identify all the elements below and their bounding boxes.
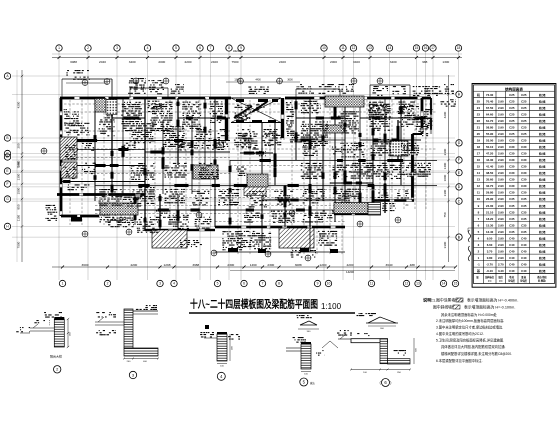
svg-text:做法: 做法	[310, 381, 315, 385]
svg-text:3: 3	[116, 46, 118, 50]
svg-text:7: 7	[262, 282, 264, 286]
svg-text:750: 750	[443, 212, 447, 217]
svg-text:C40: C40	[509, 236, 515, 240]
svg-text:2.90: 2.90	[498, 132, 504, 136]
svg-text:G: G	[458, 141, 461, 145]
svg-text:1:100: 1:100	[321, 302, 342, 311]
svg-text:5.卫生间,厨房及阳台板面标高降低,详见建施图.: 5.卫生间,厨房及阳台板面标高降低,详见建施图.	[436, 338, 504, 343]
svg-text:6.60: 6.60	[487, 243, 493, 247]
svg-text:29.80: 29.80	[486, 191, 494, 195]
svg-text:0.80: 0.80	[487, 256, 493, 260]
svg-text:-2.70: -2.70	[486, 262, 493, 266]
svg-text:C35: C35	[521, 197, 527, 201]
svg-text:剪力墙: 剪力墙	[538, 223, 546, 227]
svg-text:3.70: 3.70	[487, 249, 493, 253]
svg-text:18: 18	[477, 145, 481, 149]
svg-text:7: 7	[210, 46, 212, 50]
svg-text:13: 13	[368, 46, 372, 50]
svg-text:剪力墙: 剪力墙	[538, 132, 546, 136]
svg-text:C30: C30	[521, 145, 527, 149]
svg-text:3400: 3400	[390, 60, 397, 64]
svg-text:C25: C25	[521, 100, 527, 104]
svg-text:2.90: 2.90	[498, 249, 504, 253]
svg-text:3.图中未注明梁定位尺寸者,梁边贴柱边或墙边.: 3.图中未注明梁定位尺寸者,梁边贴柱边或墙边.	[436, 325, 503, 330]
svg-text:剪力墙: 剪力墙	[538, 191, 546, 195]
svg-text:2.90: 2.90	[498, 236, 504, 240]
svg-text:3640: 3640	[318, 233, 322, 240]
svg-text:12.40: 12.40	[486, 230, 494, 234]
svg-text:具体做法详见大样图,板内配筋双层双向拉通.: 具体做法详见大样图,板内配筋双层双向拉通.	[441, 344, 506, 349]
svg-text:32.70: 32.70	[486, 184, 494, 188]
svg-text:1.图中涂黑墙体: 1.图中涂黑墙体	[433, 298, 459, 303]
svg-text:58.80: 58.80	[486, 126, 494, 130]
svg-text:13: 13	[477, 178, 481, 182]
svg-text:14: 14	[388, 46, 392, 50]
svg-text:15: 15	[415, 46, 419, 50]
svg-text:1: 1	[62, 282, 64, 286]
svg-text:C35: C35	[521, 204, 527, 208]
svg-text:14200: 14200	[346, 270, 354, 274]
svg-text:C25: C25	[521, 139, 527, 143]
svg-text:基: 基	[476, 268, 480, 273]
svg-text:2.90: 2.90	[498, 204, 504, 208]
svg-text:21.10: 21.10	[486, 210, 494, 214]
svg-text:5: 5	[217, 282, 219, 286]
svg-text:4200: 4200	[130, 263, 137, 267]
svg-text:2400: 2400	[211, 60, 218, 64]
svg-text:C30: C30	[521, 178, 527, 182]
svg-text:图中斜线墙体: 图中斜线墙体	[433, 305, 456, 310]
svg-text:C30: C30	[509, 191, 515, 195]
svg-text:剪力墙: 剪力墙	[538, 171, 546, 175]
svg-text:4: 4	[173, 282, 175, 286]
svg-text:C30: C30	[509, 165, 515, 169]
svg-text:C25: C25	[521, 119, 527, 123]
svg-text:C30: C30	[509, 178, 515, 182]
svg-text:1200: 1200	[320, 263, 327, 267]
svg-text:6.本层梁配筋详见平面图中标注.: 6.本层梁配筋详见平面图中标注.	[436, 358, 483, 363]
svg-text:14: 14	[477, 171, 481, 175]
svg-text:7500: 7500	[232, 60, 239, 64]
svg-text:3300: 3300	[443, 241, 447, 248]
svg-text:剪力墙: 剪力墙	[538, 262, 546, 266]
svg-text:47.20: 47.20	[486, 152, 494, 156]
svg-text:13: 13	[416, 282, 420, 286]
svg-text:C25: C25	[509, 93, 515, 97]
svg-text:C40: C40	[521, 243, 527, 247]
svg-text:C30: C30	[509, 145, 515, 149]
svg-text:2000: 2000	[330, 60, 337, 64]
svg-text:2.90: 2.90	[498, 256, 504, 260]
svg-text:9.50: 9.50	[487, 236, 493, 240]
svg-text:C35: C35	[521, 210, 527, 214]
svg-text:剪力墙: 剪力墙	[538, 126, 546, 130]
svg-text:1460: 1460	[250, 263, 257, 267]
svg-text:C40: C40	[509, 256, 515, 260]
svg-text:16: 16	[424, 46, 428, 50]
svg-text:14: 14	[442, 282, 446, 286]
svg-text:剪力墙: 剪力墙	[538, 158, 546, 162]
svg-text:4400: 4400	[255, 79, 261, 82]
svg-text:2300: 2300	[227, 263, 234, 267]
svg-text:C30: C30	[509, 171, 515, 175]
svg-text:C40: C40	[521, 269, 527, 273]
svg-text:67.50: 67.50	[486, 106, 494, 110]
svg-text:988: 988	[422, 60, 427, 64]
svg-text:19: 19	[477, 139, 481, 143]
svg-text:C30: C30	[521, 171, 527, 175]
svg-text:剪力墙: 剪力墙	[538, 184, 546, 188]
svg-text:C25: C25	[509, 139, 515, 143]
svg-text:C25: C25	[521, 93, 527, 97]
svg-text:25: 25	[477, 100, 481, 104]
svg-text:3640: 3640	[386, 263, 393, 267]
svg-text:4200: 4200	[347, 263, 354, 267]
svg-text:C35: C35	[509, 197, 515, 201]
svg-text:F: F	[458, 158, 460, 162]
svg-text:剪力墙: 剪力墙	[538, 145, 546, 149]
svg-text:C25: C25	[509, 126, 515, 130]
svg-text:2.90: 2.90	[498, 171, 504, 175]
svg-text:机: 机	[477, 92, 480, 97]
svg-text:2400: 2400	[279, 60, 286, 64]
svg-text:C25: C25	[509, 119, 515, 123]
svg-text:26.90: 26.90	[486, 197, 494, 201]
svg-text:剪力墙: 剪力墙	[538, 249, 546, 253]
svg-text:剪力墙: 剪力墙	[538, 152, 546, 156]
svg-text:3.40: 3.40	[498, 269, 504, 273]
svg-text:1000: 1000	[443, 174, 447, 181]
svg-text:C35: C35	[509, 223, 515, 227]
svg-text:C25: C25	[509, 106, 515, 110]
svg-text:C25: C25	[509, 132, 515, 136]
svg-text:）: ）	[390, 381, 394, 386]
svg-text:4: 4	[147, 46, 149, 50]
svg-text:11: 11	[370, 282, 374, 286]
svg-text:C30: C30	[509, 158, 515, 162]
svg-text:21: 21	[477, 126, 481, 130]
svg-text:剪力墙: 剪力墙	[538, 197, 546, 201]
svg-text:C30: C30	[521, 165, 527, 169]
svg-text:8: 8	[278, 282, 280, 286]
svg-text:说明:: 说明:	[423, 297, 433, 304]
svg-text:C40: C40	[509, 243, 515, 247]
svg-text:-1: -1	[477, 262, 480, 266]
svg-text:C40: C40	[509, 262, 515, 266]
svg-text:3600: 3600	[287, 79, 293, 82]
svg-text:2.90: 2.90	[498, 230, 504, 234]
svg-text:C25: C25	[509, 113, 515, 117]
svg-text:2200: 2200	[185, 60, 192, 64]
svg-text:C35: C35	[521, 223, 527, 227]
svg-text:十八~二十四层模板图及梁配筋平面图: 十八~二十四层模板图及梁配筋平面图	[190, 298, 318, 311]
svg-text:20: 20	[477, 132, 481, 136]
svg-text:41.40: 41.40	[486, 165, 494, 169]
svg-text:其余未注明墙顶面标高为 H=0.000m处: 其余未注明墙顶面标高为 H=0.000m处	[441, 312, 497, 317]
svg-text:2C: 2C	[405, 204, 408, 207]
svg-text:6: 6	[243, 282, 245, 286]
svg-text:2.70: 2.70	[498, 262, 504, 266]
svg-text:2.90: 2.90	[498, 178, 504, 182]
svg-text:12: 12	[352, 46, 356, 50]
svg-text:2.90: 2.90	[498, 210, 504, 214]
svg-text:1300: 1300	[443, 189, 447, 196]
svg-text:剪力墙: 剪力墙	[538, 139, 546, 143]
svg-text:2.90: 2.90	[498, 223, 504, 227]
svg-text:2040: 2040	[99, 60, 106, 64]
svg-text:C35: C35	[521, 230, 527, 234]
svg-text:3600: 3600	[82, 263, 89, 267]
svg-text:C30: C30	[509, 184, 515, 188]
svg-text:C35: C35	[509, 204, 515, 208]
svg-text:2.90: 2.90	[498, 217, 504, 221]
svg-text:5: 5	[175, 46, 177, 50]
svg-text:(m): (m)	[488, 280, 492, 282]
svg-text:488: 488	[410, 263, 415, 267]
svg-text:剪力墙: 剪力墙	[538, 113, 546, 117]
svg-text:1: 1	[58, 46, 60, 50]
svg-text:C35: C35	[509, 230, 515, 234]
svg-text:22: 22	[477, 119, 481, 123]
svg-text:8: 8	[228, 46, 230, 50]
svg-text:61.70: 61.70	[486, 119, 494, 123]
svg-text:C30: C30	[521, 184, 527, 188]
svg-text:C25: C25	[509, 100, 515, 104]
svg-text:C40: C40	[521, 262, 527, 266]
svg-text:18.20: 18.20	[486, 217, 494, 221]
svg-text:2.90: 2.90	[498, 106, 504, 110]
svg-text:结构层高表: 结构层高表	[504, 86, 523, 91]
svg-text:6: 6	[199, 46, 201, 50]
svg-text:C25: C25	[521, 106, 527, 110]
svg-text:34200: 34200	[233, 49, 242, 53]
svg-text:2.90: 2.90	[498, 165, 504, 169]
svg-text:15: 15	[454, 282, 458, 286]
svg-text:剪力墙: 剪力墙	[538, 106, 546, 110]
svg-text:18: 18	[457, 46, 461, 50]
svg-text:2.90: 2.90	[498, 100, 504, 104]
svg-text:24: 24	[477, 106, 481, 110]
svg-text:2.90: 2.90	[498, 197, 504, 201]
svg-text:G: G	[6, 197, 9, 201]
svg-text:4.图中未注明的梁吊筋均为2C12.: 4.图中未注明的梁吊筋均为2C12.	[436, 331, 484, 336]
svg-text:表示墙顶面标高为 H=-0.400m.: 表示墙顶面标高为 H=-0.400m.	[467, 298, 518, 303]
svg-text:剪力墙: 剪力墙	[538, 100, 546, 104]
svg-text:35.60: 35.60	[486, 178, 494, 182]
svg-text:3: 3	[159, 282, 161, 286]
svg-text:70.40: 70.40	[486, 100, 494, 104]
svg-text:1300: 1300	[442, 60, 449, 64]
svg-text:C40: C40	[521, 236, 527, 240]
svg-text:2000: 2000	[158, 60, 165, 64]
svg-text:C40: C40	[509, 249, 515, 253]
svg-text:1400: 1400	[443, 162, 447, 169]
svg-text:12: 12	[477, 184, 481, 188]
svg-text:1298: 1298	[164, 263, 171, 267]
svg-text:2: 2	[87, 46, 89, 50]
svg-text:2.90: 2.90	[498, 158, 504, 162]
svg-text:C35: C35	[509, 210, 515, 214]
svg-text:44.30: 44.30	[486, 158, 494, 162]
svg-text:4200: 4200	[443, 111, 447, 118]
svg-text:C30: C30	[509, 152, 515, 156]
svg-text:C30: C30	[521, 158, 527, 162]
svg-text:剪力墙: 剪力墙	[538, 93, 546, 97]
svg-text:-6.10: -6.10	[486, 269, 493, 273]
svg-text:2.90: 2.90	[498, 113, 504, 117]
svg-text:C40: C40	[521, 256, 527, 260]
svg-text:3400: 3400	[353, 60, 360, 64]
svg-text:剪力墙: 剪力墙	[538, 236, 546, 240]
svg-text:15: 15	[477, 165, 481, 169]
svg-text:17: 17	[477, 152, 481, 156]
svg-text:10: 10	[327, 282, 331, 286]
svg-text:12: 12	[405, 282, 409, 286]
svg-text:剪力墙: 剪力墙	[538, 210, 546, 214]
svg-text:C35: C35	[521, 217, 527, 221]
svg-text:楼梯间配筋详见楼梯详图,未注明分布筋C8@200.: 楼梯间配筋详见楼梯详图,未注明分布筋C8@200.	[441, 351, 512, 356]
svg-text:(m): (m)	[499, 280, 503, 282]
svg-text:64.60: 64.60	[486, 113, 494, 117]
svg-text:2.90: 2.90	[498, 145, 504, 149]
svg-text:C40: C40	[509, 269, 515, 273]
svg-text:3400: 3400	[129, 60, 136, 64]
svg-text:C30: C30	[521, 191, 527, 195]
svg-text:2.90: 2.90	[498, 119, 504, 123]
svg-text:10: 10	[322, 46, 326, 50]
svg-text:50.10: 50.10	[486, 145, 494, 149]
svg-text:剪力墙: 剪力墙	[538, 178, 546, 182]
svg-text:C25: C25	[521, 113, 527, 117]
svg-text:剪力墙: 剪力墙	[538, 269, 546, 273]
svg-text:2.90: 2.90	[498, 184, 504, 188]
svg-text:15.30: 15.30	[486, 223, 494, 227]
svg-text:C35: C35	[509, 217, 515, 221]
svg-text:3088: 3088	[70, 60, 77, 64]
svg-text:C25: C25	[521, 126, 527, 130]
svg-text:C40: C40	[521, 249, 527, 253]
svg-text:阳台大样: 阳台大样	[50, 354, 62, 359]
svg-text:73.30: 73.30	[486, 93, 494, 97]
svg-text:53.00: 53.00	[486, 139, 494, 143]
svg-text:38.50: 38.50	[486, 171, 494, 175]
svg-text:17: 17	[431, 46, 435, 50]
svg-text:F: F	[6, 182, 8, 186]
svg-text:表示墙顶面标高为 H=-0.100m.: 表示墙顶面标高为 H=-0.100m.	[464, 305, 515, 310]
svg-text:55.90: 55.90	[486, 132, 494, 136]
svg-text:剪力墙: 剪力墙	[538, 243, 546, 247]
svg-text:剪力墙: 剪力墙	[538, 256, 546, 260]
svg-text:11: 11	[341, 46, 345, 50]
svg-text:23: 23	[477, 113, 481, 117]
svg-text:24.00: 24.00	[486, 204, 494, 208]
svg-text:10: 10	[477, 197, 481, 201]
svg-text:2.90: 2.90	[498, 152, 504, 156]
svg-text:2.未注明板厚均为100mm,板面标高同层面标高.: 2.未注明板厚均为100mm,板面标高同层面标高.	[436, 318, 504, 323]
svg-text:11: 11	[477, 191, 480, 195]
svg-text:2: 2	[107, 282, 109, 286]
svg-text:2.90: 2.90	[498, 126, 504, 130]
svg-text:（: （	[377, 381, 381, 386]
svg-text:2.90: 2.90	[498, 243, 504, 247]
svg-text:9: 9	[317, 282, 319, 286]
svg-text:C30: C30	[521, 152, 527, 156]
svg-text:剪力墙: 剪力墙	[538, 230, 546, 234]
svg-text:剪力墙: 剪力墙	[538, 217, 546, 221]
svg-text:2.90: 2.90	[498, 191, 504, 195]
svg-text:2300: 2300	[267, 263, 274, 267]
svg-text:3088: 3088	[295, 263, 302, 267]
svg-text:16: 16	[477, 158, 481, 162]
svg-text:C25: C25	[521, 132, 527, 136]
svg-text:2.90: 2.90	[498, 139, 504, 143]
svg-text:剪力墙: 剪力墙	[538, 119, 546, 123]
svg-text:剪力墙: 剪力墙	[538, 165, 546, 169]
svg-text:剪力墙: 剪力墙	[538, 204, 546, 208]
svg-text:3988: 3988	[192, 263, 199, 267]
svg-text:2300: 2300	[443, 148, 447, 155]
